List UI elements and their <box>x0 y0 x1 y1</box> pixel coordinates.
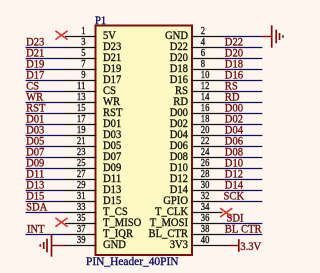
wire net CS (pin 11) <box>26 91 66 93</box>
pin 22 stub <box>191 146 223 148</box>
pin 26 stub <box>191 168 223 170</box>
pin 19 stub <box>65 135 97 137</box>
wire net D00 (pin 16) <box>222 113 262 115</box>
no-connect cross pin 35 <box>55 218 67 227</box>
power symbol 3.3V (pin 40) <box>230 239 239 252</box>
wire net SCK (pin 32) <box>222 201 262 203</box>
wire net SDA (pin 33) <box>26 212 66 214</box>
pin 1 stub <box>65 36 97 38</box>
wire net D02 (pin 18) <box>222 124 262 126</box>
wire net D16 (pin 10) <box>222 80 262 82</box>
pin 11 stub <box>65 91 97 93</box>
wire net RST (pin 15) <box>26 113 66 115</box>
pin 34 stub <box>191 212 223 214</box>
pin 24 stub <box>191 157 223 159</box>
wire net D15 (pin 31) <box>26 201 66 203</box>
wire net BL_CTR (pin 38) <box>222 234 262 236</box>
no-connect cross pin 34 <box>220 208 232 217</box>
wire net GND (pin 2) <box>222 36 262 38</box>
pin 33 stub <box>65 212 97 214</box>
wire net WR (pin 13) <box>26 102 66 104</box>
wire net D21 (pin 5) <box>26 58 66 60</box>
pin 6 stub <box>191 58 223 60</box>
pin 36 stub <box>191 223 223 225</box>
wire net D03 (pin 19) <box>26 135 66 137</box>
svg-text:GND: GND <box>103 237 126 251</box>
pin 40 stub <box>191 245 231 247</box>
pin 28 stub <box>191 179 223 181</box>
pin 7 stub <box>65 69 97 71</box>
wire net D19 (pin 7) <box>26 69 66 71</box>
wire net D06 (pin 22) <box>222 146 262 148</box>
wire net D01 (pin 17) <box>26 124 66 126</box>
pin 5 stub <box>65 58 97 60</box>
pin 27 stub <box>65 179 97 181</box>
pin 30 stub <box>191 190 223 192</box>
wire net D11 (pin 27) <box>26 179 66 181</box>
ground symbol GND (pin 39) <box>40 234 66 256</box>
pin 31 stub <box>65 201 97 203</box>
pin 18 stub <box>191 124 223 126</box>
wire net RS (pin 12) <box>222 91 262 93</box>
wire net INT (pin 37) <box>26 234 66 236</box>
wire net RD (pin 14) <box>222 102 262 104</box>
svg-text:3.3V: 3.3V <box>240 239 261 253</box>
pin 14 stub <box>191 102 223 104</box>
pin 3 stub <box>65 47 97 49</box>
wire net D05 (pin 21) <box>26 146 66 148</box>
pin 23 stub <box>65 157 97 159</box>
pin 2 stub <box>191 36 223 38</box>
pin 38 stub <box>191 234 223 236</box>
pin 29 stub <box>65 190 97 192</box>
pin 35 stub <box>65 223 97 225</box>
wire net D13 (pin 29) <box>26 190 66 192</box>
wire net D07 (pin 23) <box>26 157 66 159</box>
connector P1 component body <box>96 26 193 256</box>
pin 20 stub <box>191 135 223 137</box>
wire net D14 (pin 30) <box>222 190 262 192</box>
svg-text:PIN_Header_40PIN: PIN_Header_40PIN <box>86 254 179 268</box>
svg-text:39: 39 <box>77 234 86 246</box>
pin 37 stub <box>65 234 97 236</box>
pin 9 stub <box>65 80 97 82</box>
pin 16 stub <box>191 113 223 115</box>
wire net D12 (pin 28) <box>222 179 262 181</box>
pin 4 stub <box>191 47 223 49</box>
wire net D22 (pin 4) <box>222 47 262 49</box>
wire net D10 (pin 26) <box>222 168 262 170</box>
pin 8 stub <box>191 69 223 71</box>
ground symbol GND (pin 2) <box>262 25 283 47</box>
pin 15 stub <box>65 113 97 115</box>
wire net D09 (pin 25) <box>26 168 66 170</box>
wire net D23 (pin 3) <box>26 47 66 49</box>
svg-text:3V3: 3V3 <box>170 237 188 251</box>
wire net D18 (pin 8) <box>222 69 262 71</box>
pin 32 stub <box>191 201 223 203</box>
pin 13 stub <box>65 102 97 104</box>
wire net SDI (pin 36) <box>222 223 262 225</box>
pin 17 stub <box>65 124 97 126</box>
svg-text:BL CTR: BL CTR <box>225 221 262 235</box>
pin 39 stub <box>65 245 97 247</box>
svg-text:40: 40 <box>201 234 210 246</box>
wire net D20 (pin 6) <box>222 58 262 60</box>
svg-text:SCK: SCK <box>224 188 245 202</box>
svg-text:P1: P1 <box>95 13 106 27</box>
svg-text:SDA: SDA <box>26 199 47 213</box>
wire net D08 (pin 24) <box>222 157 262 159</box>
no-connect cross pin 1 <box>55 31 67 40</box>
pin 10 stub <box>191 80 223 82</box>
pin 25 stub <box>65 168 97 170</box>
wire net D17 (pin 9) <box>26 80 66 82</box>
pin 12 stub <box>191 91 223 93</box>
svg-text:INT: INT <box>27 221 45 235</box>
wire net D04 (pin 20) <box>222 135 262 137</box>
pin 21 stub <box>65 146 97 148</box>
